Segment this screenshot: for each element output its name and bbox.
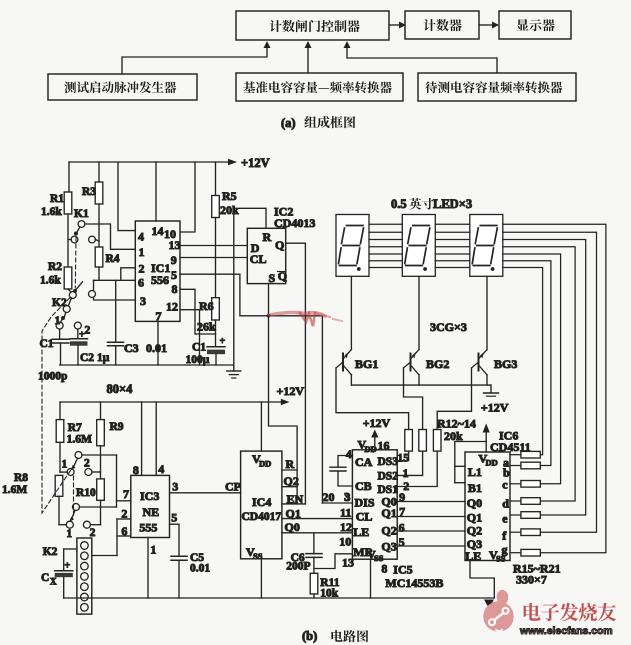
svg-text:SS: SS: [496, 554, 506, 564]
svg-text:0.5: 0.5: [391, 197, 407, 211]
svg-text:10k: 10k: [320, 588, 339, 600]
arrow controller to counter: [389, 22, 406, 29]
svg-text:Q0: Q0: [285, 520, 300, 534]
svg-text:5: 5: [399, 535, 405, 549]
svg-text:www.elecfans.com: www.elecfans.com: [519, 626, 613, 637]
wire pulse generator to controller: [122, 41, 271, 74]
wire LED2 to BG2: [418, 276, 420, 349]
wire 555 pin8 to rail: [133, 402, 142, 477]
wire node to IC5 DIS: [321, 316, 323, 503]
resistor R9: [97, 420, 124, 446]
svg-text:15: 15: [397, 451, 409, 465]
LED display DS3: [470, 215, 503, 277]
svg-text:CL: CL: [356, 510, 373, 524]
wire IC4 VSS to ground rail: [260, 559, 262, 598]
svg-text:20: 20: [323, 490, 335, 504]
timer IC3 NE555 box: [131, 475, 170, 537]
svg-text:C1: C1: [192, 342, 206, 354]
wire DIS into IC5: [322, 490, 352, 505]
svg-text:BG3: BG3: [494, 357, 517, 371]
svg-text:5: 5: [171, 511, 177, 525]
svg-text:13: 13: [342, 556, 354, 570]
svg-text:DD: DD: [486, 458, 498, 468]
wire rail to R7: [59, 402, 61, 420]
svg-text:3CG×3: 3CG×3: [430, 320, 467, 334]
svg-text:e: e: [502, 512, 508, 526]
svg-text:7: 7: [123, 487, 129, 501]
wire LED3 to BG3: [486, 276, 488, 349]
svg-text:DS3: DS3: [378, 456, 399, 468]
svg-text:11: 11: [340, 506, 351, 520]
emitter rail and ground: [351, 385, 498, 396]
wire R6 to C1 100u: [215, 320, 217, 347]
svg-text:R3: R3: [82, 186, 96, 198]
+12V arrow above IC5: [363, 416, 391, 450]
svg-text:C: C: [41, 572, 49, 584]
block: test start pulse generator 测试启动脉冲发生器: [48, 74, 197, 100]
wire rail to R9: [100, 402, 102, 420]
ground symbol: [227, 365, 241, 378]
wire IC1 pin9 to IC2 CL: [180, 257, 247, 259]
block: counting gate controller 计数闸门控制器: [236, 11, 389, 40]
block: measured capacitor to frequency converter 待测电容容量频率转换器: [418, 73, 576, 101]
flip-flop IC2 CD4013 box: [247, 205, 315, 286]
bottom ground rail: [64, 598, 495, 609]
svg-text:CP: CP: [225, 480, 241, 494]
capacitor C6 200P: [286, 533, 322, 573]
svg-text:IC3: IC3: [140, 489, 159, 503]
label 0.5 inch LED x3: [391, 197, 472, 211]
svg-text:330×7: 330×7: [516, 573, 547, 587]
capacitor C3 0.01: [108, 280, 168, 365]
svg-text:R4: R4: [106, 253, 120, 265]
wire IC5 VSS to ground rail: [370, 559, 372, 598]
svg-text:CD4511: CD4511: [490, 440, 531, 454]
wire IC2 R pin to ground rail: [234, 208, 266, 365]
resistor R3: [82, 182, 103, 204]
wire IC4 Q2 to feedback: [282, 486, 297, 488]
svg-text:1.6M: 1.6M: [67, 434, 92, 446]
svg-text:2: 2: [90, 527, 96, 539]
wire 555 pin3 CP to IC4: [170, 480, 242, 494]
capacitor C1 1000p: [38, 329, 69, 383]
wire IC1 pin13 to IC2 D: [180, 245, 247, 247]
svg-text:Q2: Q2: [467, 524, 482, 538]
connector socket K2 strip: [43, 538, 92, 614]
segment bus horizontal lines: [369, 224, 470, 267]
wire R5 to R6: [215, 218, 217, 298]
label 80x4: [107, 382, 134, 396]
svg-text:4: 4: [138, 230, 144, 244]
watermark text www.elecfans.com: [519, 626, 613, 637]
+12V arrow lower-left rail: [60, 384, 304, 405]
wire measured converter to controller: [344, 41, 498, 73]
svg-text:555: 555: [139, 521, 157, 535]
wire R3 to R4: [98, 204, 100, 247]
segment bus nested corners: [503, 224, 606, 552]
wire rail to IC1 pin14: [155, 162, 157, 221]
svg-text:6: 6: [121, 524, 127, 538]
wire IC4 Q1 to IC5 CL: [282, 518, 353, 520]
svg-text:1: 1: [55, 315, 61, 327]
wire IC4 Q0 to IC5 LE: [282, 532, 353, 534]
wire node down to EN jog: [269, 316, 298, 504]
wire IC1 pin12 to ground rail: [180, 310, 200, 365]
svg-text:8: 8: [133, 463, 139, 477]
svg-text:+12V: +12V: [481, 401, 509, 415]
svg-text:MC14553B: MC14553B: [385, 576, 443, 590]
svg-text:Q0: Q0: [467, 496, 482, 510]
wire IC1 pin7 to ground rail: [157, 321, 159, 365]
wire IC5 DS3 to R12: [397, 451, 408, 461]
svg-text:IC5: IC5: [393, 563, 412, 577]
wire IC5 Q2 to IC6: [397, 530, 465, 532]
svg-text:BG2: BG2: [426, 357, 449, 371]
wire IC5 DS1 to R14: [397, 451, 437, 486]
wire IC6 VDD L1 B1 tie: [455, 442, 486, 483]
svg-text:13: 13: [169, 238, 181, 252]
svg-text:BG1: BG1: [355, 357, 378, 371]
wire rail to R5: [215, 162, 217, 196]
resistor R4: [95, 247, 120, 267]
svg-text:200P: 200P: [286, 561, 310, 573]
svg-text:Q1: Q1: [467, 511, 482, 525]
svg-text:1.6k: 1.6k: [41, 206, 62, 218]
counter IC4 CD4017 box: [241, 451, 304, 561]
svg-text:+12V: +12V: [241, 156, 270, 170]
block: display 显示器: [499, 11, 571, 39]
svg-text:(b): (b): [302, 629, 317, 643]
svg-text:IC4: IC4: [252, 495, 271, 509]
arrow counter to display: [479, 22, 499, 29]
watermark elecfans logo: [483, 590, 513, 632]
wire rail corner to R1: [68, 162, 70, 192]
svg-text:556: 556: [151, 273, 169, 287]
wire IC5 Q3 to IC6: [397, 545, 465, 547]
svg-text:20k: 20k: [220, 203, 239, 217]
svg-text:10: 10: [339, 535, 351, 549]
switch K2 upper: [52, 280, 96, 336]
svg-text:3: 3: [172, 480, 178, 494]
svg-text:+: +: [79, 330, 85, 341]
svg-text:2: 2: [139, 262, 145, 276]
wire IC5 Q0 to IC6: [397, 501, 465, 503]
block: counter 计数器: [405, 11, 479, 39]
wire rail to R3: [98, 162, 100, 182]
transistor BG3: [472, 350, 518, 386]
switch K2 lower section: [59, 496, 117, 540]
capacitor C5 0.01: [171, 552, 210, 598]
svg-text:1μ: 1μ: [97, 352, 110, 364]
svg-text:0.01: 0.01: [146, 341, 167, 355]
svg-text:+12V: +12V: [277, 384, 305, 398]
svg-text:R2: R2: [48, 261, 62, 273]
svg-text:+: +: [65, 561, 71, 572]
red pen smear: [270, 313, 342, 326]
decoder IC6 CD4511 box: [465, 429, 531, 564]
wire IC5 DS2 to R13: [397, 451, 422, 475]
svg-text:Q1: Q1: [381, 506, 396, 520]
wire R9 to R10: [100, 446, 102, 479]
svg-text:+12V: +12V: [363, 416, 391, 430]
svg-text:Q3: Q3: [381, 540, 396, 554]
op IC1 556 timer box: [135, 221, 180, 323]
wire R4 to pins 2-6 node: [94, 267, 121, 280]
svg-text:14: 14: [152, 224, 164, 238]
wire R12 to BG1 base: [336, 368, 409, 430]
caption (a) 组成框图: [281, 116, 355, 130]
switch K1: [68, 208, 99, 243]
svg-text:L1: L1: [468, 465, 482, 479]
svg-text:12: 12: [340, 520, 352, 534]
wire R7 to R8 junction: [60, 442, 67, 472]
svg-text:1.6M: 1.6M: [2, 484, 27, 496]
wire R13 to BG2 base: [404, 368, 423, 430]
svg-text:Q: Q: [275, 238, 284, 252]
resistors R15-R21 330x7: [510, 451, 561, 586]
svg-text:1: 1: [62, 459, 68, 471]
switch K1 lower section: [62, 452, 117, 476]
svg-text:1: 1: [403, 466, 409, 480]
svg-text:X: X: [50, 577, 57, 587]
svg-text:C2: C2: [80, 352, 94, 364]
wire rail to IC4 VDD: [260, 402, 262, 451]
svg-text:DS2: DS2: [378, 471, 399, 483]
wire IC4 R to feedback: [282, 469, 297, 471]
svg-text:c: c: [502, 478, 508, 492]
wire +12V rail to IC1 pin4: [118, 162, 135, 231]
svg-text:K1: K1: [74, 208, 89, 220]
capacitor CX electrolytic: [41, 549, 77, 598]
svg-text:DIS: DIS: [355, 496, 375, 510]
svg-text:CD4013: CD4013: [274, 216, 315, 230]
svg-text:6: 6: [138, 276, 144, 290]
svg-text:3: 3: [140, 294, 146, 308]
wire LED1 to BG1: [350, 276, 352, 349]
resistor R10: [76, 479, 104, 500]
svg-text:R10: R10: [76, 487, 96, 499]
label 3CG x3: [430, 320, 467, 334]
resistor R11 10k: [310, 557, 340, 599]
svg-text:LED×3: LED×3: [433, 197, 472, 211]
svg-text:LE: LE: [465, 549, 481, 563]
svg-text:B1: B1: [468, 481, 482, 495]
+12V arrow above IC6: [481, 401, 509, 453]
svg-text:R1: R1: [50, 193, 64, 205]
+12V top rail: [69, 156, 270, 170]
svg-text:3: 3: [345, 490, 351, 504]
wire switch poles to 555 pin7: [117, 455, 131, 507]
svg-text:2: 2: [84, 458, 90, 470]
block: reference capacitor to frequency converter 基准电容容量—频率转换器: [236, 73, 403, 101]
ganged switch dashed link: [42, 237, 76, 518]
transistor BG2: [404, 350, 450, 386]
wire IC2 S to node: [267, 284, 271, 318]
svg-text:6: 6: [399, 521, 405, 535]
wire IC4 EN node: [282, 503, 306, 505]
wire 555 pin5 to C5: [170, 511, 180, 557]
svg-text:R5: R5: [222, 189, 237, 203]
svg-text:2: 2: [121, 507, 127, 521]
svg-text:100μ: 100μ: [186, 354, 210, 366]
resistor R14: [433, 430, 441, 452]
svg-text:12: 12: [166, 300, 178, 314]
svg-text:(a): (a): [281, 116, 296, 130]
counter-latch IC5 MC14553B box: [352, 438, 398, 564]
svg-text:9: 9: [171, 253, 177, 267]
svg-text:NE: NE: [143, 505, 160, 519]
svg-text:CA: CA: [355, 455, 373, 469]
wire IC5 MR to R11 node: [314, 554, 353, 569]
svg-text:R6: R6: [199, 299, 214, 313]
svg-text:CD4017: CD4017: [242, 511, 282, 523]
label R12~14 20k: [437, 417, 476, 444]
svg-text:80×4: 80×4: [107, 382, 134, 396]
wire IC1 pin8 to R6-C junction: [180, 289, 216, 334]
svg-text:CB: CB: [355, 479, 372, 493]
svg-text:26k: 26k: [197, 320, 216, 334]
svg-text:4: 4: [158, 462, 164, 476]
svg-text:d: d: [502, 497, 509, 511]
wire K1 upper contact to IC1 pin1: [85, 224, 135, 249]
svg-text:R: R: [286, 457, 295, 471]
svg-text:1: 1: [150, 543, 156, 557]
svg-text:0.01: 0.01: [190, 563, 210, 575]
resistor R1 1.6k: [41, 192, 72, 218]
svg-text:R9: R9: [110, 421, 124, 433]
resistor R8 1.6M: [2, 472, 63, 496]
wire IC2 Q to IC4 EN: [286, 243, 306, 504]
resistor R12: [405, 430, 413, 452]
wire 555 pins 2-6 to socket: [92, 507, 131, 556]
resistor R5 20k: [212, 189, 239, 218]
wire IC1 pin5 node: [180, 274, 322, 316]
capacitor C1 100u electrolytic: [186, 336, 226, 366]
upper ground rail: [60, 364, 234, 366]
jumper IC1 pin2 to pin6: [121, 268, 136, 281]
wire R1 to R2: [67, 214, 69, 267]
LED display DS1: [336, 215, 369, 277]
resistor R7 1.6M: [56, 420, 92, 446]
watermark text 电子发烧友: [524, 603, 617, 621]
wire IC5 Q1 to IC6: [397, 516, 465, 518]
svg-text:DD: DD: [259, 459, 271, 469]
svg-text:1: 1: [139, 245, 145, 259]
caption (b) 电路图: [302, 629, 368, 643]
svg-text:1: 1: [66, 528, 72, 540]
svg-text:Q2: Q2: [381, 524, 396, 538]
svg-text:CL: CL: [250, 252, 267, 266]
svg-text:K2: K2: [43, 546, 58, 558]
wire 555 pin4 to rail: [156, 402, 164, 476]
capacitor C2 1u electrolytic: [70, 329, 110, 365]
wire IC1 pin3 to K2: [94, 297, 136, 300]
capacitor at IC5 CA-CB: [330, 456, 352, 487]
wire R14 to BG3 base: [437, 368, 471, 430]
wire rail to IC1 pin10: [180, 162, 195, 232]
svg-text:16: 16: [378, 439, 390, 453]
LED display DS2: [402, 215, 435, 277]
svg-text:8: 8: [172, 282, 178, 296]
svg-text:+: +: [220, 336, 226, 347]
svg-text:R7: R7: [68, 422, 82, 434]
wire IC6 LE VSS to ground rail: [470, 561, 494, 599]
svg-text:1.6k: 1.6k: [40, 275, 61, 287]
resistor R6 26k: [197, 298, 219, 334]
svg-text:4: 4: [346, 447, 352, 461]
svg-text:R8: R8: [14, 472, 28, 484]
svg-text:C3: C3: [124, 341, 139, 355]
transistor BG1: [336, 350, 378, 386]
wire reference converter to controller: [305, 41, 312, 73]
IC5 pin number labels: [339, 447, 443, 590]
resistor R2 1.6k: [40, 261, 72, 289]
svg-text:Q2: Q2: [284, 474, 299, 488]
svg-text:5: 5: [171, 268, 177, 282]
svg-text:S: S: [269, 271, 276, 285]
svg-text:LE: LE: [353, 525, 369, 539]
svg-text:8: 8: [381, 562, 387, 576]
wire 555 pin1 to ground rail: [148, 538, 156, 599]
svg-text:2: 2: [85, 325, 91, 337]
svg-text:R: R: [263, 230, 272, 244]
resistor R13: [419, 430, 427, 452]
